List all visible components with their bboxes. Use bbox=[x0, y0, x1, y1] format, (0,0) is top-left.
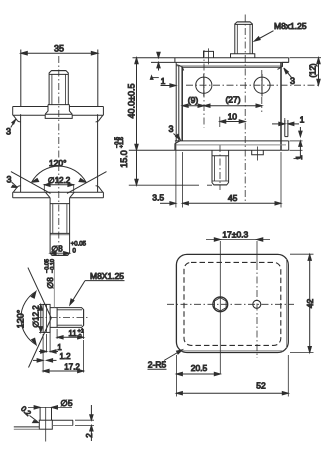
svg-text:3: 3 bbox=[6, 175, 11, 185]
svg-text:120°: 120° bbox=[16, 309, 26, 328]
svg-text:M8x1.25: M8x1.25 bbox=[274, 21, 307, 31]
dimension 10 bbox=[220, 112, 245, 124]
svg-text:0: 0 bbox=[79, 334, 82, 340]
svg-text:35: 35 bbox=[54, 44, 64, 54]
120 deg arc bbox=[16, 292, 37, 345]
svg-text:20.5: 20.5 bbox=[191, 363, 208, 373]
bottom flange plate bbox=[13, 186, 104, 198]
svg-text:1: 1 bbox=[294, 155, 304, 160]
hole right bbox=[254, 77, 270, 93]
dimension dia 12.2 bbox=[44, 176, 73, 192]
inner edge line right bbox=[285, 259, 287, 348]
axis bottom rivet / right hole bbox=[261, 70, 263, 112]
vertical line through left hole (extension) bbox=[219, 241, 221, 374]
svg-text:2-R5: 2-R5 bbox=[148, 360, 167, 370]
cone line lower bbox=[29, 318, 52, 368]
dimension 20.5 bbox=[176, 355, 220, 397]
inner edge line bottom bbox=[182, 350, 284, 352]
axis left hole bbox=[203, 50, 205, 128]
svg-text:∅8: ∅8 bbox=[46, 277, 55, 289]
plate right end lip bbox=[288, 58, 290, 63]
svg-text:1: 1 bbox=[300, 115, 305, 125]
leader 3 (bottom flange) bbox=[6, 175, 17, 188]
stud horizontal bbox=[50, 308, 84, 328]
bottom washer trapezoid bbox=[45, 192, 74, 198]
left hole (stud end) bbox=[213, 297, 228, 312]
flange lip right (up) bbox=[96, 186, 103, 193]
left rubber edge lines bbox=[175, 62, 177, 141]
top flange plate bbox=[13, 107, 104, 122]
svg-text:42: 42 bbox=[305, 299, 315, 309]
extension / body edge left bbox=[20, 50, 22, 107]
120 deg cone line right bbox=[67, 172, 107, 194]
dimension dia 12.2 (rotated) bbox=[32, 304, 45, 332]
svg-text:52: 52 bbox=[256, 381, 266, 391]
svg-text:11: 11 bbox=[68, 329, 77, 338]
svg-text:1: 1 bbox=[57, 343, 62, 352]
dimension 15.0 +1.5/-0.5 bbox=[114, 137, 138, 185]
top rubber washer (neck + flare + disc) bbox=[45, 105, 72, 119]
dimension 35 bbox=[21, 44, 98, 56]
top stud M8 (side) bbox=[235, 22, 253, 54]
svg-text:1: 1 bbox=[161, 76, 166, 86]
svg-text:1.2: 1.2 bbox=[59, 352, 71, 361]
leader 3 (top flange) bbox=[6, 119, 16, 136]
label M8X1.25 with leader bbox=[70, 271, 125, 305]
rivet head box bbox=[39, 420, 52, 429]
svg-text:15.0: 15.0 bbox=[119, 150, 129, 168]
centerline horizontal bbox=[36, 317, 90, 319]
svg-text:(27): (27) bbox=[225, 95, 240, 105]
svg-text:−0.10: −0.10 bbox=[50, 259, 56, 273]
bottom plate lines bbox=[129, 141, 289, 150]
dimension 1 (top-left vertical) bbox=[150, 52, 176, 87]
svg-text:M8X1.25: M8X1.25 bbox=[90, 271, 124, 281]
top rivet bump bbox=[204, 48, 214, 64]
svg-text:3: 3 bbox=[290, 76, 295, 86]
hidden (dashed) top plate outline bbox=[184, 262, 281, 345]
right wall bbox=[280, 62, 282, 150]
dimension 2 (plate thickness) bbox=[75, 405, 94, 441]
plate left end bbox=[174, 58, 176, 63]
dimension 3.5 / 45 bbox=[152, 141, 281, 208]
label 2-R5 bbox=[148, 350, 183, 370]
dimension 40.0 +-0.5 bbox=[126, 58, 138, 151]
plate left end lip bbox=[174, 144, 176, 151]
dimension 1 (right vertical) bbox=[290, 127, 305, 160]
dimension 1.2 bbox=[33, 334, 71, 362]
dimension (9) and (27) bbox=[182, 95, 262, 108]
bottom stud bbox=[50, 198, 70, 256]
dimension 1 (right horizontal) bbox=[272, 115, 305, 126]
left wall bbox=[181, 67, 183, 142]
flange lip left (up) bbox=[13, 186, 20, 193]
top plate lines bbox=[133, 58, 289, 71]
dimension 42 bbox=[290, 254, 315, 352]
label dia8 -0.05/-0.10 (rotated) bbox=[45, 259, 57, 308]
svg-text:−0.5: −0.5 bbox=[114, 137, 120, 148]
centerline (vertical axis) bbox=[58, 56, 60, 257]
svg-text:∅12.2: ∅12.2 bbox=[48, 176, 71, 185]
svg-text:(9): (9) bbox=[188, 95, 199, 105]
svg-text:2: 2 bbox=[85, 433, 94, 438]
svg-text:(12): (12) bbox=[309, 63, 318, 78]
dimension 52 bbox=[176, 355, 288, 397]
plate right segment bbox=[52, 419, 73, 421]
dimension dia 5 bbox=[28, 398, 73, 409]
flange lip left bbox=[13, 115, 20, 122]
svg-text:∅12.2: ∅12.2 bbox=[32, 305, 41, 328]
top stud M8 bbox=[49, 71, 68, 105]
extension / body edge right bbox=[97, 50, 99, 107]
svg-text:∅5: ∅5 bbox=[60, 398, 72, 408]
dimension 17 +-0.3 bbox=[206, 230, 270, 242]
vertical line through right hole bbox=[256, 241, 258, 263]
svg-text:+0.05: +0.05 bbox=[71, 242, 87, 248]
bottom stud collar bbox=[50, 203, 70, 205]
svg-text:17±0.3: 17±0.3 bbox=[222, 230, 248, 240]
svg-text:45: 45 bbox=[228, 193, 238, 203]
svg-text:3: 3 bbox=[6, 127, 11, 137]
horizontal centerline bbox=[167, 303, 294, 305]
top stud washer bbox=[231, 54, 255, 58]
label 0.2 with leader bbox=[19, 404, 39, 422]
leader 3 (bottom plate left) bbox=[168, 124, 180, 140]
right hole bbox=[253, 300, 261, 308]
rivet pin shank bbox=[39, 407, 41, 420]
bottom rivet bump bbox=[252, 150, 264, 155]
flange lip right bbox=[96, 115, 103, 122]
svg-text:120°: 120° bbox=[49, 158, 67, 168]
bottom stud (side) bbox=[212, 150, 229, 185]
plate left segment bbox=[14, 426, 40, 428]
120 deg angle arc bbox=[32, 158, 87, 182]
dimension 1 bbox=[39, 329, 62, 353]
hole left bbox=[196, 77, 212, 93]
left bend curve bbox=[177, 65, 184, 71]
axis bottom stud bbox=[219, 117, 221, 127]
leader 3 (top plate right) bbox=[284, 68, 295, 86]
flange plate (section) bbox=[43, 304, 50, 332]
svg-text:3: 3 bbox=[168, 124, 173, 134]
svg-text:3.5: 3.5 bbox=[152, 193, 164, 203]
right rubber edge lines bbox=[284, 120, 286, 137]
120 deg cone line left bbox=[11, 172, 51, 194]
extension line stud bottom bbox=[129, 184, 212, 186]
cone line upper bbox=[28, 268, 51, 318]
svg-text:17.2: 17.2 bbox=[64, 363, 80, 372]
hole centerline horizontal bbox=[186, 84, 321, 86]
dimension 11 +1/0 bbox=[57, 329, 84, 341]
svg-text:40.0±0.5: 40.0±0.5 bbox=[126, 84, 136, 119]
axis top stud bbox=[244, 15, 246, 203]
label M8x1.25 bbox=[254, 21, 307, 41]
svg-text:10: 10 bbox=[228, 112, 238, 122]
rivet centerline bbox=[45, 407, 47, 441]
dimension (12) bbox=[290, 58, 322, 85]
dimension 17.2 bbox=[43, 340, 84, 373]
outer plate rounded square bbox=[176, 254, 288, 352]
body sides bbox=[20, 114, 22, 192]
dimension dia 8 (+0.05/0) bbox=[50, 242, 87, 255]
